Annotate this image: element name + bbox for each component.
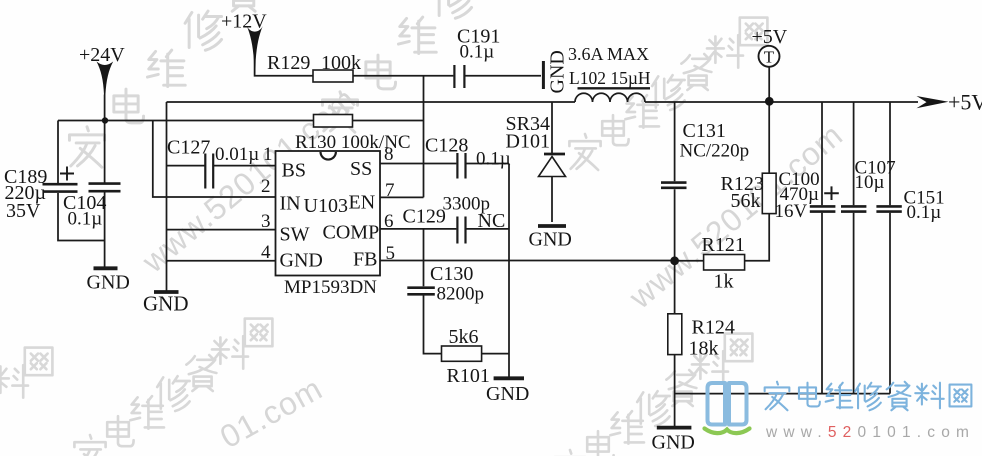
svg-text:16V: 16V: [775, 201, 808, 222]
svg-text:EN: EN: [349, 192, 376, 214]
svg-text:56k: 56k: [731, 190, 761, 212]
svg-text:4: 4: [261, 242, 271, 263]
svg-text:COMP: COMP: [323, 222, 380, 244]
svg-text:FB: FB: [353, 249, 377, 271]
svg-text:GND: GND: [486, 383, 529, 405]
svg-text:GND: GND: [547, 50, 569, 93]
svg-text:C127: C127: [167, 137, 210, 159]
svg-text:2: 2: [261, 176, 271, 197]
svg-text:IN: IN: [280, 193, 301, 215]
svg-text:NC: NC: [478, 210, 506, 232]
svg-text:L102 15µH: L102 15µH: [569, 68, 651, 88]
svg-text:C129: C129: [403, 206, 446, 228]
svg-text:SW: SW: [280, 224, 310, 246]
svg-text:R121: R121: [702, 234, 745, 256]
svg-text:8200p: 8200p: [437, 284, 485, 305]
svg-text:100k: 100k: [321, 52, 361, 74]
svg-text:+24V: +24V: [79, 44, 125, 66]
svg-text:D101: D101: [506, 131, 550, 153]
svg-text:5k6: 5k6: [449, 326, 479, 348]
svg-text:18k: 18k: [689, 338, 719, 360]
svg-text:0.1µ: 0.1µ: [460, 42, 495, 63]
svg-text:GND: GND: [87, 272, 130, 294]
svg-text:T: T: [764, 48, 775, 67]
svg-text:+5V: +5V: [948, 90, 982, 115]
svg-text:GND: GND: [143, 292, 189, 316]
svg-text:3: 3: [261, 211, 271, 232]
svg-text:0.1µ: 0.1µ: [907, 202, 942, 223]
svg-text:7: 7: [385, 180, 395, 201]
svg-text:10µ: 10µ: [855, 172, 885, 193]
svg-text:C131: C131: [683, 120, 726, 142]
svg-text:GND: GND: [529, 229, 572, 251]
svg-text:8: 8: [384, 144, 394, 165]
svg-text:+5V: +5V: [752, 26, 788, 48]
svg-text:6: 6: [384, 211, 394, 232]
svg-text:0.01µ: 0.01µ: [215, 144, 259, 165]
svg-text:GND: GND: [652, 432, 695, 454]
svg-text:BS: BS: [282, 160, 306, 182]
svg-text:C130: C130: [430, 263, 473, 285]
svg-text:SS: SS: [350, 158, 372, 180]
svg-text:1k: 1k: [714, 271, 734, 293]
svg-text:R129: R129: [267, 52, 310, 74]
svg-text:3.6A MAX: 3.6A MAX: [568, 44, 649, 64]
svg-text:MP1593DN: MP1593DN: [284, 277, 377, 298]
svg-text:R101: R101: [447, 365, 490, 387]
svg-text:+12V: +12V: [221, 11, 267, 33]
svg-text:35V: 35V: [6, 200, 41, 222]
svg-text:C128: C128: [425, 135, 468, 157]
svg-text:1: 1: [263, 144, 273, 165]
svg-text:GND: GND: [280, 250, 323, 272]
svg-text:www.520101.com: www.520101.com: [765, 424, 975, 441]
svg-text:0.1µ: 0.1µ: [68, 209, 103, 230]
svg-text:NC/220p: NC/220p: [680, 141, 750, 162]
svg-text:R124: R124: [692, 317, 735, 339]
svg-text:5: 5: [386, 243, 396, 264]
svg-text:U103: U103: [304, 195, 348, 217]
